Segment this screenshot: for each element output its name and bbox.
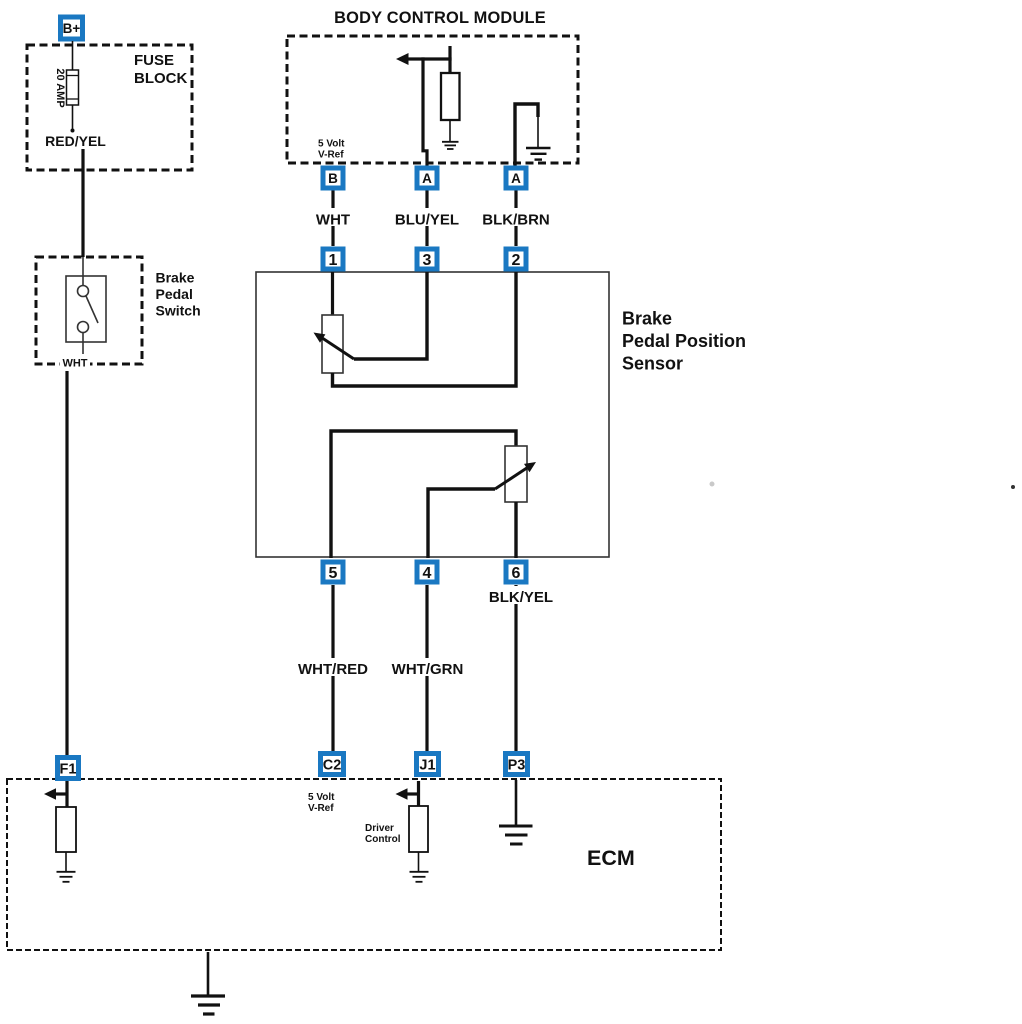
connector A (BLK/BRN) bbox=[506, 168, 526, 188]
wire: pin 5 to connector C2 bbox=[331, 585, 334, 752]
pin 2 bbox=[506, 249, 526, 269]
svg-text:Brake: Brake bbox=[622, 309, 672, 329]
body control module dashed box bbox=[287, 36, 578, 163]
wire: fuse block to brake pedal switch bbox=[81, 149, 84, 257]
wire: ECM case to chassis ground bbox=[207, 952, 210, 996]
wire: switch to connector F1 bbox=[65, 371, 68, 756]
svg-text:2: 2 bbox=[512, 252, 521, 269]
potentiometer 1 wiper arrow bbox=[314, 333, 355, 360]
svg-text:Pedal: Pedal bbox=[156, 286, 193, 302]
svg-text:20 AMP: 20 AMP bbox=[54, 68, 66, 107]
svg-text:WHT: WHT bbox=[62, 358, 87, 370]
connector C2 bbox=[321, 754, 344, 775]
svg-text:4: 4 bbox=[423, 565, 432, 582]
svg-text:A: A bbox=[422, 171, 432, 186]
wire: pot 2 bottom to pin 6 bbox=[514, 502, 517, 558]
svg-text:5: 5 bbox=[329, 565, 338, 582]
svg-text:V-Ref: V-Ref bbox=[318, 150, 344, 161]
label BLK/YEL bbox=[487, 586, 557, 606]
wire: fuse to junction dot bbox=[71, 105, 75, 133]
connector P3 bbox=[506, 754, 528, 775]
svg-text:P3: P3 bbox=[508, 758, 526, 774]
svg-text:5 Volt: 5 Volt bbox=[318, 139, 345, 150]
wire: connector A to pin 2 bbox=[514, 190, 517, 246]
svg-text:3: 3 bbox=[423, 252, 432, 269]
wire: BCM horizontal with left arrow bbox=[396, 53, 452, 65]
potentiometer 1 body bbox=[322, 315, 343, 373]
wire: J1 into ECM with left arrow bbox=[396, 781, 419, 807]
ground BCM left bbox=[442, 142, 459, 149]
resistor inside BCM bbox=[441, 73, 460, 120]
svg-text:Driver: Driver bbox=[365, 823, 394, 834]
label WHT/GRN bbox=[390, 658, 465, 678]
svg-text:RED/YEL: RED/YEL bbox=[45, 133, 106, 149]
svg-text:Sensor: Sensor bbox=[622, 354, 683, 374]
svg-text:WHT/RED: WHT/RED bbox=[298, 661, 368, 678]
svg-text:BLU/YEL: BLU/YEL bbox=[395, 212, 459, 229]
ground BCM right bbox=[526, 148, 551, 160]
wire: P3 to ground bbox=[515, 780, 518, 826]
pin 5 bbox=[323, 562, 343, 582]
wire: connector A to pin 3 bbox=[425, 190, 428, 246]
fuse 20 AMP bbox=[67, 70, 79, 105]
wire: wiper 2 to pin 4 bbox=[428, 489, 495, 558]
wire: BCM resistor top stub bbox=[448, 46, 451, 74]
wire: connector B to pin 1 bbox=[331, 190, 334, 246]
ground ECM P3 bbox=[499, 826, 533, 844]
svg-text:BLK/YEL: BLK/YEL bbox=[489, 589, 553, 606]
wire: pin 1 to potentiometer 1 bbox=[331, 272, 334, 315]
label 5 Volt V-Ref (ECM) bbox=[308, 792, 335, 814]
wire: pin 4 to connector J1 bbox=[425, 585, 428, 752]
ECM dashed box bbox=[7, 779, 721, 950]
svg-text:B: B bbox=[328, 171, 338, 186]
label WHT/RED bbox=[296, 658, 370, 678]
wire: BCM resistor to ground bbox=[449, 120, 451, 141]
svg-text:C2: C2 bbox=[323, 758, 342, 774]
svg-text:ECM: ECM bbox=[587, 846, 635, 870]
label WHT bbox=[314, 208, 352, 229]
svg-text:Switch: Switch bbox=[156, 303, 201, 319]
label BLU/YEL bbox=[393, 208, 461, 229]
brake pedal switch dashed box bbox=[36, 257, 142, 364]
label 5 Volt V-Ref (BCM) bbox=[318, 139, 345, 161]
svg-text:WHT: WHT bbox=[316, 212, 350, 229]
svg-text:WHT/GRN: WHT/GRN bbox=[392, 661, 464, 678]
svg-text:Control: Control bbox=[365, 834, 401, 845]
wire: B+ to fuse bbox=[72, 41, 74, 70]
wire: resistor F1 to ground bbox=[65, 852, 67, 871]
svg-text:6: 6 bbox=[512, 565, 521, 582]
wire: pin 5 riser and top rail to pot 2 bbox=[331, 431, 516, 558]
chassis ground below ECM bbox=[191, 996, 225, 1014]
svg-text:1: 1 bbox=[329, 252, 338, 269]
svg-text:Brake: Brake bbox=[156, 270, 195, 286]
pin 6 bbox=[506, 562, 526, 582]
ground ECM J1 bbox=[410, 872, 429, 882]
svg-text:FUSE: FUSE bbox=[134, 52, 174, 69]
potentiometer 2 body bbox=[505, 446, 527, 502]
pin 4 bbox=[417, 562, 437, 582]
svg-text:B+: B+ bbox=[63, 21, 81, 36]
label WHT (switch output) bbox=[60, 354, 90, 370]
label Driver Control bbox=[365, 823, 401, 845]
svg-text:BLK/BRN: BLK/BRN bbox=[482, 212, 550, 229]
brake pedal switch body bbox=[66, 257, 106, 357]
wire: F1 into ECM with left arrow bbox=[44, 781, 67, 808]
pin 1 bbox=[323, 249, 343, 269]
wire: wiper 1 to pin 3 bbox=[354, 272, 427, 359]
svg-text:A: A bbox=[511, 171, 521, 186]
speck artifact right bbox=[1011, 485, 1015, 489]
connector F1 bbox=[58, 758, 79, 779]
battery feed B+ bbox=[61, 17, 83, 39]
connector J1 bbox=[417, 754, 439, 775]
wire: pin 6 to connector P3 bbox=[514, 585, 517, 751]
ground ECM F1 bbox=[57, 872, 76, 882]
svg-text:Pedal Position: Pedal Position bbox=[622, 331, 746, 351]
svg-text:F1: F1 bbox=[60, 762, 77, 778]
wire: BCM right branch from connector A to ground bbox=[515, 104, 538, 167]
svg-text:BLOCK: BLOCK bbox=[134, 70, 187, 87]
label FUSE BLOCK bbox=[134, 52, 187, 87]
label BLK/BRN bbox=[481, 208, 551, 229]
svg-text:5 Volt: 5 Volt bbox=[308, 792, 335, 803]
label Brake Pedal Position Sensor bbox=[622, 309, 746, 374]
svg-text:V-Ref: V-Ref bbox=[308, 803, 334, 814]
fuse block dashed box bbox=[27, 45, 192, 170]
connector A (BLU/YEL) bbox=[417, 168, 437, 188]
svg-text:J1: J1 bbox=[419, 758, 435, 774]
brake pedal position sensor box bbox=[256, 272, 609, 557]
resistor ECM J1 (driver) bbox=[409, 806, 428, 852]
pin 3 bbox=[417, 249, 437, 269]
wire: resistor J1 to ground bbox=[418, 852, 420, 871]
connector B bbox=[323, 168, 343, 188]
wire: BCM drop to connector A bbox=[423, 57, 427, 167]
wire: pot 1 bottom to pin 2 bbox=[333, 272, 517, 386]
potentiometer 2 wiper arrow bbox=[495, 462, 536, 489]
svg-text:BODY CONTROL MODULE: BODY CONTROL MODULE bbox=[334, 9, 546, 27]
label Brake Pedal Switch bbox=[156, 270, 201, 319]
resistor ECM F1 bbox=[56, 807, 76, 852]
speck artifact centre bbox=[710, 482, 715, 487]
